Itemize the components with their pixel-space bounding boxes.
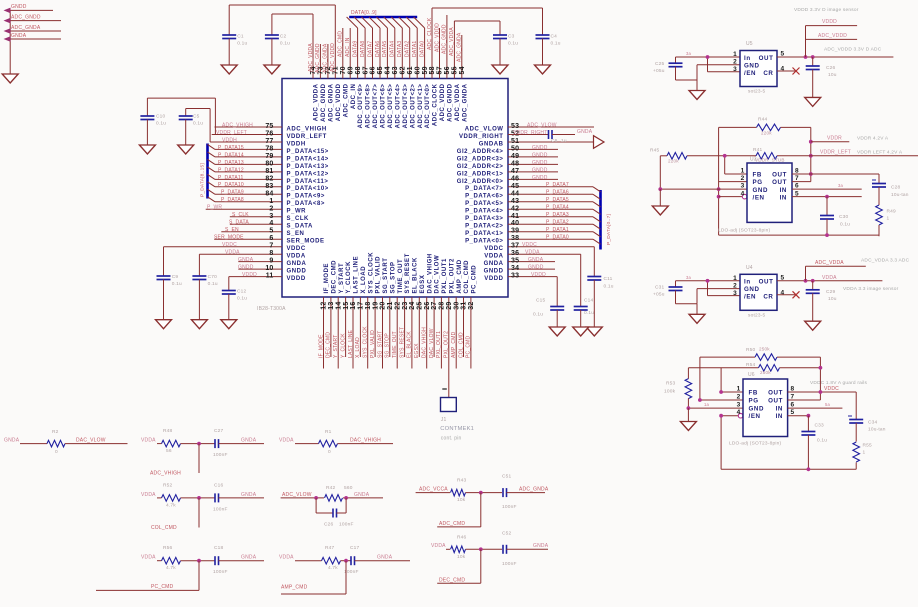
svg-text:20: 20 [380, 302, 387, 310]
pin number 4 [781, 289, 785, 296]
svg-text:sot23-5: sot23-5 [748, 89, 766, 95]
bus entry wire [208, 159, 216, 164]
svg-text:IN: IN [780, 195, 787, 202]
svg-text:LDO-adj (SOT23-8pin): LDO-adj (SOT23-8pin) [729, 441, 781, 447]
svg-text:45: 45 [511, 183, 519, 190]
net label ADC_VCCA [419, 487, 448, 493]
pin 64 ADC_OUT<5> (top) [385, 28, 394, 128]
net label GNDA [11, 33, 27, 39]
ground [139, 145, 155, 154]
svg-text:4: 4 [741, 190, 745, 197]
net label PXL_OUT1 [436, 331, 442, 358]
svg-text:VDDH: VDDH [287, 141, 306, 147]
svg-text:66: 66 [370, 66, 377, 74]
svg-text:P_DATA5: P_DATA5 [546, 197, 569, 203]
pin number 4 [781, 66, 785, 73]
svg-text:19: 19 [372, 302, 379, 310]
connector J1 CONTMEK1 cont. pin [440, 398, 474, 442]
svg-text:P_DATA[0..7]: P_DATA[0..7] [606, 214, 612, 245]
svg-text:S_EN: S_EN [287, 231, 305, 237]
svg-text:IN: IN [780, 187, 787, 194]
net label DAC_VHIGH [422, 327, 428, 358]
pin 23 SYS_RESET (bottom) [402, 253, 411, 357]
svg-text:VDDA: VDDA [279, 555, 294, 561]
wire pin 4 /EN [721, 416, 738, 470]
svg-text:S_EN: S_EN [225, 227, 239, 233]
pin number 1 [733, 275, 737, 282]
svg-text:7: 7 [269, 243, 273, 250]
svg-text:OUT: OUT [772, 172, 787, 179]
svg-text:P_WR: P_WR [207, 205, 222, 211]
bus entry wire [593, 217, 601, 222]
bus P_DATA[0..7] vertical [599, 190, 602, 250]
wire R47 to C17 [341, 560, 352, 562]
svg-text:10k: 10k [457, 497, 466, 503]
svg-text:24: 24 [409, 302, 416, 310]
net label P_DATA15 [218, 145, 244, 151]
svg-text:28: 28 [439, 302, 446, 310]
wire GNDA to R2 [20, 443, 47, 445]
svg-text:CR: CR [763, 294, 773, 301]
capacitor C11 0.1u [587, 247, 613, 327]
net label P_DATA14 [218, 152, 244, 158]
pin 7 VDDC (left) [164, 243, 306, 252]
wire R43 to C51 [466, 492, 503, 494]
svg-text:0.1u: 0.1u [551, 41, 561, 47]
wire pin 2 GND [697, 289, 740, 304]
pin 48 GI2_ADDR<2> (right) [457, 160, 558, 169]
regulator U4 sot23-5 body [740, 274, 777, 310]
capacitor C31 +05u [653, 281, 697, 304]
svg-text:0: 0 [328, 449, 331, 455]
net label GNDD [532, 145, 548, 151]
pin 66 ADC_OUT<7> (top) [370, 28, 379, 128]
net label ADC_VLOW [282, 492, 312, 498]
port arrow GNDA [4, 36, 11, 42]
pin number 1 [733, 51, 737, 58]
pin 19 PXL_VALID (bottom) [372, 256, 381, 357]
svg-text:560: 560 [344, 485, 353, 491]
pin 10 GNDD (left) [238, 265, 306, 274]
svg-text:0: 0 [55, 449, 58, 455]
svg-text:DAC_VLOW: DAC_VLOW [435, 255, 441, 294]
svg-text:250k: 250k [760, 370, 771, 375]
svg-text:R53: R53 [666, 381, 676, 387]
wire pin 4 /EN [719, 196, 742, 198]
svg-text:10: 10 [265, 265, 273, 272]
pin 6 SER_MODE (left) [214, 235, 324, 244]
net label DAC_VLOW [76, 438, 106, 444]
svg-text:56: 56 [166, 448, 172, 454]
net label P_DATA12 [218, 167, 244, 173]
svg-text:C2: C2 [280, 34, 287, 40]
junction [706, 279, 710, 283]
svg-text:7: 7 [795, 175, 799, 182]
svg-text:2: 2 [733, 282, 737, 289]
wire VDDA to R47 [295, 560, 322, 562]
resistor R52 4.7k [162, 482, 181, 508]
svg-text:ADC_VHIGH: ADC_VHIGH [287, 126, 327, 132]
capacitor C14 0.1u [574, 254, 595, 327]
svg-text:OUT: OUT [768, 397, 783, 404]
svg-text:DATA8: DATA8 [360, 41, 366, 57]
svg-text:PG: PG [749, 397, 759, 404]
svg-text:P_DATA3: P_DATA3 [546, 212, 569, 218]
wire C17 to GNDA [355, 560, 411, 562]
pin number 6 [791, 401, 795, 408]
pin 24 EL_BLACK (bottom) [409, 257, 418, 369]
bus DATA[0..9] horizontal [349, 16, 417, 19]
svg-text:23: 23 [402, 302, 409, 310]
capacitor C33 0.1u [801, 416, 827, 470]
pin 57 ADC_VDDD (top) [437, 28, 446, 121]
svg-text:ADC_VLOW: ADC_VLOW [527, 122, 557, 128]
svg-text:DATA[0..9]: DATA[0..9] [351, 10, 377, 16]
wire VDDA to R56 [157, 560, 162, 562]
svg-text:P_DATA<8>: P_DATA<8> [287, 201, 325, 207]
svg-text:14: 14 [335, 302, 342, 310]
capacitor C4 0.1u [536, 8, 561, 65]
capacitor C9 0.1u [157, 247, 182, 320]
resistor R42 560 [325, 485, 353, 501]
svg-text:DATA7: DATA7 [367, 41, 373, 57]
net label S_DATA [229, 220, 249, 226]
svg-text:0.1u: 0.1u [817, 438, 827, 444]
svg-text:GNDA: GNDA [528, 257, 544, 263]
net label SER_MODE [214, 235, 244, 241]
wire pin 6 IN [792, 188, 862, 190]
note VDDR 4.2V A [857, 135, 889, 141]
svg-text:/EN: /EN [753, 195, 765, 202]
wire pin 5 OUT [777, 56, 893, 58]
off-page connector arrow GNDAB [594, 136, 605, 149]
wire pin 3 GND [660, 156, 747, 189]
svg-text:81: 81 [265, 168, 273, 175]
svg-text:GI2_ADDR<1>: GI2_ADDR<1> [457, 171, 504, 177]
svg-text:30: 30 [453, 302, 460, 310]
svg-text:FB: FB [749, 389, 758, 396]
bus P_DATA[8..15] vertical [206, 144, 209, 199]
wire stub VDDR [811, 141, 850, 143]
net label GNDA [577, 129, 593, 135]
svg-text:GNDD: GNDD [287, 269, 307, 275]
wire ADC_VCCA to R43 [416, 492, 450, 494]
junction [706, 55, 710, 59]
ground [549, 327, 565, 336]
wire R54 tap to FB [721, 368, 743, 392]
svg-text:69: 69 [347, 66, 354, 74]
svg-text:77: 77 [265, 138, 273, 145]
svg-text:GNDAB: GNDAB [479, 141, 504, 147]
svg-text:C51: C51 [502, 474, 512, 480]
svg-text:29: 29 [446, 302, 453, 310]
svg-text:GI2_ADDR<4>: GI2_ADDR<4> [457, 149, 504, 155]
capacitor C26 10u [806, 57, 837, 97]
bus entry wire [208, 189, 216, 194]
svg-text:U4: U4 [746, 265, 753, 271]
wire VDDR_LEFT long net [660, 155, 918, 157]
svg-text:P_DATA0: P_DATA0 [546, 235, 569, 241]
net label P_DATA5 [546, 197, 569, 203]
svg-text:ADC_OUT<7>: ADC_OUT<7> [373, 84, 379, 129]
pin 58 ADC_CLOCK (top) [429, 8, 438, 126]
pin 59 ADC_OUT<0> (top) [422, 28, 431, 128]
pin 68 ADC_OUT<9> (top) [355, 28, 364, 128]
resistor R41 220k [753, 147, 777, 159]
svg-text:C6: C6 [551, 138, 558, 144]
regulator U6 LDO-adj body [743, 379, 788, 437]
ground [221, 320, 237, 329]
net label 3a [686, 275, 692, 280]
svg-text:DAC_VHIGH: DAC_VHIGH [422, 327, 428, 358]
svg-text:1: 1 [737, 385, 741, 392]
ground [805, 97, 821, 106]
svg-text:VDDR_LEFT: VDDR_LEFT [216, 130, 247, 136]
svg-text:10k: 10k [457, 554, 466, 560]
pin 13 DEC_CMD (bottom) [328, 260, 337, 357]
svg-text:39: 39 [511, 228, 519, 235]
svg-text:ADC_OUT<8>: ADC_OUT<8> [366, 84, 372, 129]
pin number 8 [791, 385, 795, 392]
net label VDDC [222, 242, 237, 248]
wire pin 7 OUT [788, 399, 821, 401]
wire C18 to GNDA [219, 560, 265, 562]
svg-text:C25: C25 [655, 61, 665, 67]
svg-text:34: 34 [511, 265, 519, 272]
bus entry wire [391, 17, 402, 28]
ground [805, 321, 821, 330]
svg-text:GNDA: GNDA [11, 33, 27, 39]
svg-text:ADC_VDDD: ADC_VDDD [440, 83, 446, 121]
svg-text:P_DATA<5>: P_DATA<5> [465, 201, 503, 207]
ground [264, 65, 280, 74]
svg-text:5: 5 [269, 228, 273, 235]
svg-text:0.1u: 0.1u [604, 284, 614, 290]
svg-text:X_LOAD: X_LOAD [355, 337, 361, 358]
svg-text:C5: C5 [193, 114, 200, 120]
svg-text:sot23-5: sot23-5 [748, 312, 766, 318]
net label AMP_CMD [281, 585, 308, 591]
svg-text:4: 4 [781, 66, 785, 73]
svg-text:GNDA: GNDA [287, 261, 307, 267]
svg-text:SYS_CLOCK: SYS_CLOCK [368, 252, 374, 294]
svg-text:ADC_GNDD: ADC_GNDD [11, 14, 41, 20]
bus entry wire [593, 202, 601, 207]
wire pin 4 no-connect [777, 70, 796, 72]
pin 2 P_WR (left) [206, 205, 306, 214]
svg-text:100nF: 100nF [502, 504, 517, 510]
svg-text:GNDA: GNDA [241, 555, 257, 561]
pin 55 ADC_VDDA (top) [452, 21, 461, 121]
net label GNDA [241, 438, 257, 444]
wire stub to PC_CMD [96, 561, 199, 591]
wire net ADC_GNDA [10, 30, 61, 32]
note ADC_VDDA 3.3 ADC [861, 257, 910, 263]
svg-text:3: 3 [733, 290, 737, 297]
svg-text:PXL_OUT2: PXL_OUT2 [444, 331, 450, 358]
svg-text:0.1u: 0.1u [193, 121, 203, 127]
svg-text:ADC_OUT<4>: ADC_OUT<4> [395, 84, 401, 129]
svg-text:82: 82 [265, 175, 273, 182]
svg-text:SYS_CLOCK: SYS_CLOCK [363, 326, 369, 358]
regulator U5 sot23-5 body [740, 51, 777, 87]
junction [479, 547, 483, 551]
svg-text:S_DATA: S_DATA [287, 224, 314, 230]
svg-text:cont. pin: cont. pin [441, 436, 462, 442]
svg-text:VDDD: VDDD [242, 272, 257, 278]
note VDDR LEFT 4.2V A [857, 149, 903, 155]
svg-text:GNDA: GNDA [238, 257, 254, 263]
bus label P_DATA[0..7] [606, 214, 612, 245]
svg-text:7: 7 [791, 393, 795, 400]
pin 26 DAC_VHIGH (bottom) [424, 253, 433, 368]
IC U1 IB28-T300A image sensor controller body [282, 79, 508, 298]
wire C3 rail to pin 55 [454, 20, 500, 22]
svg-text:P_DATA4: P_DATA4 [546, 205, 569, 211]
svg-text:IF_MODE: IF_MODE [318, 334, 324, 358]
svg-text:1: 1 [733, 275, 737, 282]
pin 12 IF_MODE (bottom) [321, 263, 330, 369]
inversion bubble /EN [738, 413, 743, 418]
junction [687, 406, 691, 410]
pin 84 P_DATA<9> (left) [215, 190, 325, 199]
wire R44 left to GND rail [718, 127, 720, 235]
wire input net to pin 1 In [676, 280, 741, 282]
wire C27 to GNDA [219, 443, 265, 445]
net label VDDC [522, 242, 537, 248]
pin 11 VDDD (left) [229, 273, 306, 282]
pin 1 P_DATA<8> (left) [215, 198, 325, 207]
svg-text:U3: U3 [750, 157, 757, 163]
svg-text:C26: C26 [324, 522, 334, 528]
svg-text:DATA3: DATA3 [397, 41, 403, 57]
net label SG_STOP [385, 333, 391, 358]
ground [689, 80, 705, 100]
pin number 3 [733, 66, 737, 73]
svg-text:U6: U6 [748, 372, 755, 378]
svg-text:42: 42 [511, 205, 519, 212]
svg-text:83: 83 [265, 183, 273, 190]
svg-text:38: 38 [511, 235, 519, 242]
pin 45 P_DATA<7> (right) [465, 183, 593, 192]
svg-text:ADC_VDDD: ADC_VDDD [336, 83, 342, 121]
bus entry wire [406, 17, 417, 28]
svg-text:ADC_VDDA: ADC_VDDA [455, 83, 461, 121]
svg-text:/EN: /EN [749, 413, 761, 420]
pin number 3 [741, 183, 745, 190]
svg-text:GNDD: GNDD [484, 269, 504, 275]
svg-text:R46: R46 [457, 534, 467, 540]
wire ADC_VLOW to R42 [281, 497, 324, 499]
svg-text:VDDA: VDDA [822, 275, 837, 281]
pin 33 VDDD (right) [484, 273, 557, 282]
wire VDDA to R1 [295, 443, 319, 445]
pin 75 ADC_VHIGH (left) [215, 123, 327, 132]
svg-text:3: 3 [269, 213, 273, 220]
svg-text:54: 54 [459, 66, 466, 74]
svg-text:VDDA: VDDA [141, 555, 156, 561]
pin 37 VDDC (right) [484, 243, 594, 252]
svg-text:C17: C17 [350, 545, 360, 551]
pin 22 TIME_OUT (bottom) [394, 259, 403, 369]
svg-text:ADC_VDDA 3.3 ADC: ADC_VDDA 3.3 ADC [861, 257, 910, 263]
svg-text:ADC_GNDA: ADC_GNDA [323, 43, 329, 73]
pin 16 LAST_LINE (bottom) [350, 256, 359, 369]
svg-text:67: 67 [362, 66, 369, 74]
svg-text:84: 84 [265, 190, 273, 197]
svg-text:DATA6: DATA6 [375, 41, 381, 57]
svg-text:P_DATA10: P_DATA10 [218, 182, 244, 188]
pin 82 P_DATA<11> (left) [215, 175, 328, 184]
wire VDDA to R48 [157, 443, 162, 445]
wire R50 left vertical to PG [700, 357, 743, 400]
net label 1a [704, 402, 710, 407]
no-connect cross [793, 291, 800, 298]
pin 49 GI2_ADDR<3> (right) [457, 153, 558, 162]
part ref U4 [746, 265, 753, 271]
svg-text:LAST_LINE: LAST_LINE [348, 329, 354, 358]
svg-text:VDDD: VDDD [287, 276, 306, 282]
svg-text:C9: C9 [172, 274, 179, 280]
svg-text:79: 79 [265, 153, 273, 160]
capacitor C51 100nF (series) [502, 474, 517, 511]
net label VDDA [525, 250, 540, 256]
net label VDDR_STUB [755, 158, 785, 163]
ground [535, 65, 551, 74]
svg-text:8: 8 [795, 168, 799, 175]
bus entry wire [593, 224, 601, 229]
svg-text:VDDR_RIGHT: VDDR_RIGHT [459, 134, 504, 140]
resistor R46 10k [451, 534, 467, 560]
part value sot23-5 [748, 89, 766, 95]
part value LDO-adj (SOT23-8pin) [729, 441, 781, 447]
wire VDDA to R52 [157, 497, 162, 499]
svg-text:100nF: 100nF [213, 452, 228, 458]
svg-text:68: 68 [355, 66, 362, 74]
pin 31 COL_CMD (bottom) [461, 260, 470, 357]
wire pin 8 OUT to VDDC stub [788, 391, 857, 393]
net label VDDA [279, 555, 294, 561]
wire R42 to GNDA [343, 497, 383, 499]
svg-text:3a: 3a [838, 183, 844, 188]
svg-text:10u: 10u [828, 72, 837, 78]
svg-text:C33: C33 [815, 423, 825, 429]
pin 41 P_DATA<3> (right) [465, 213, 593, 222]
svg-text:GNDD: GNDD [532, 145, 548, 151]
svg-text:R43: R43 [457, 478, 467, 484]
svg-text:2: 2 [737, 393, 741, 400]
svg-text:ADC_VDDA: ADC_VDDA [815, 260, 844, 266]
svg-text:DAC_VHIGH: DAC_VHIGH [350, 438, 381, 444]
resistor R47 4.7k [322, 545, 341, 571]
junction [717, 187, 721, 198]
wire stub ADC_VDDD [806, 38, 858, 40]
svg-text:PXL_OUT1: PXL_OUT1 [436, 331, 442, 358]
pin number 2 [733, 59, 737, 66]
net label COL_CMD [151, 525, 177, 531]
junction [719, 414, 723, 418]
svg-text:U5: U5 [746, 41, 753, 47]
svg-text:0.1u: 0.1u [208, 281, 218, 287]
net label GNDA [4, 438, 20, 444]
net label VDDA [431, 543, 446, 549]
net label ADC_IN [345, 37, 351, 57]
svg-text:P_DATA<7>: P_DATA<7> [465, 186, 503, 192]
wire input net to pin 1 In [676, 56, 741, 58]
wire stub VDDD [806, 26, 858, 57]
net label DATA3 [397, 41, 403, 57]
svg-text:ADC_GNDD: ADC_GNDD [448, 83, 454, 122]
